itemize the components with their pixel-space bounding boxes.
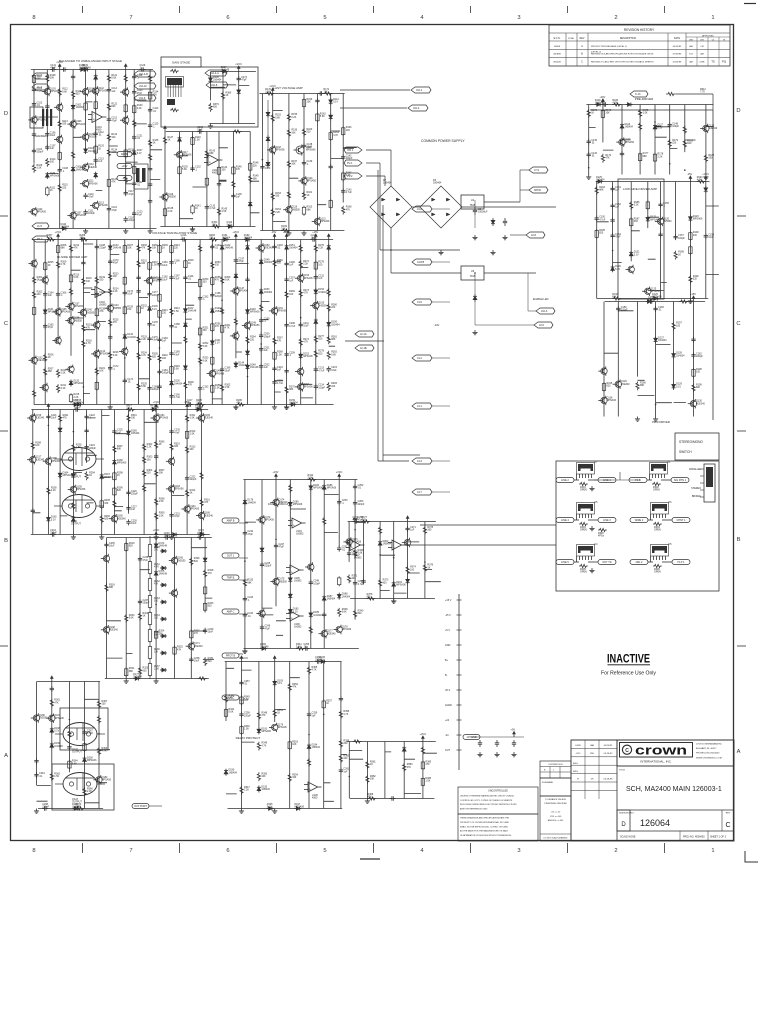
resistor R166 bbox=[342, 126, 344, 128]
diode D123 bbox=[689, 215, 691, 217]
svg-text:SCH, MA2400 MAIN 126003-1: SCH, MA2400 MAIN 126003-1 bbox=[626, 786, 722, 793]
svg-text:DO NOT SCALE DRAWING: DO NOT SCALE DRAWING bbox=[544, 837, 568, 840]
svg-text:7: 7 bbox=[129, 848, 132, 854]
capacitor C174 bbox=[124, 378, 126, 380]
resistor R186 bbox=[630, 201, 633, 210]
capacitor C198 bbox=[247, 277, 249, 279]
wires: pre-driver bus bbox=[586, 105, 713, 175]
transistor Q178 bbox=[336, 626, 342, 632]
svg-text:C11647pF: C11647pF bbox=[111, 206, 117, 212]
arrow J7-9 bbox=[529, 167, 548, 173]
transistor Q166 bbox=[198, 512, 204, 518]
resistor R383 bbox=[403, 763, 406, 772]
diode D161 bbox=[222, 239, 224, 241]
diode D112 bbox=[249, 201, 251, 203]
capacitor C147 bbox=[621, 151, 623, 153]
transistor Q110 bbox=[82, 164, 88, 170]
resistor R262 bbox=[221, 383, 224, 392]
net ovals input stage bbox=[117, 152, 132, 157]
svg-text:STEREO/MONO: STEREO/MONO bbox=[679, 440, 703, 444]
diode D180 bbox=[289, 501, 291, 503]
resistor R130 bbox=[133, 104, 135, 106]
resistor R354 bbox=[288, 773, 291, 782]
resistor R258 bbox=[211, 384, 213, 386]
svg-text:BRIDGE: BRIDGE bbox=[692, 495, 702, 498]
junction bbox=[244, 560, 246, 562]
diode D145 bbox=[247, 244, 249, 246]
svg-text:FILENAME: FILENAME bbox=[542, 781, 553, 784]
wires: hi-side output stage bus bbox=[31, 410, 210, 535]
svg-text:OUT TD: OUT TD bbox=[602, 561, 611, 564]
svg-text:HI-P 1: HI-P 1 bbox=[677, 561, 685, 564]
capacitor C181 bbox=[159, 261, 161, 263]
svg-text:REV: REV bbox=[726, 813, 731, 815]
transistor Q154 bbox=[298, 384, 304, 390]
transistor Q137 bbox=[68, 303, 74, 309]
svg-text:C1904.7uF: C1904.7uF bbox=[174, 393, 181, 399]
junction bbox=[85, 166, 87, 168]
resistor R276 bbox=[315, 261, 317, 263]
resistor R285 bbox=[196, 403, 205, 406]
ground bbox=[210, 124, 212, 126]
svg-text:TLR: TLR bbox=[689, 54, 693, 56]
resistor R384 bbox=[421, 746, 424, 755]
svg-text:PRODUCTION RELEASE (LEVEL 1): PRODUCTION RELEASE (LEVEL 1) bbox=[591, 45, 627, 48]
resistor R115 bbox=[58, 184, 61, 193]
svg-text:+VCC: +VCC bbox=[702, 173, 709, 176]
resistor R127 bbox=[125, 103, 127, 105]
zone ticks top bbox=[82, 6, 84, 13]
capacitor C243 bbox=[244, 596, 246, 598]
resistor R279 bbox=[327, 288, 330, 297]
capacitor C103 bbox=[33, 132, 35, 134]
transistor Q160 bbox=[111, 516, 117, 522]
transistor enclosure box upper bbox=[60, 708, 108, 750]
arrow J2-6 bbox=[534, 322, 553, 328]
resistor R378 bbox=[367, 597, 376, 600]
resistor R265 bbox=[260, 304, 263, 313]
resistor R345 bbox=[241, 695, 243, 697]
arrow J10-1 bbox=[411, 87, 431, 93]
capacitor C233 bbox=[74, 409, 76, 411]
resistor R103 bbox=[579, 522, 588, 525]
diode D127 bbox=[655, 336, 657, 338]
resistor R310 bbox=[170, 442, 173, 451]
capacitor C191 bbox=[184, 275, 186, 277]
capacitor C263 bbox=[36, 758, 38, 760]
resistor R126 bbox=[124, 74, 127, 83]
ground bbox=[235, 405, 237, 407]
supply arrow bbox=[155, 407, 157, 410]
diode D198 bbox=[51, 727, 53, 729]
capacitor C214 bbox=[315, 384, 317, 386]
ground bbox=[235, 405, 237, 407]
resistor R180 bbox=[683, 125, 686, 134]
capacitor C206 bbox=[286, 261, 288, 263]
resistor R307 bbox=[155, 469, 158, 478]
resistor R268 bbox=[274, 351, 276, 353]
resistor R132 bbox=[133, 165, 135, 167]
junction bbox=[138, 358, 140, 360]
arrow SPKR GND bbox=[529, 187, 548, 193]
resistor R182 bbox=[704, 154, 707, 163]
resistor R288 bbox=[80, 238, 89, 241]
resistor R148 bbox=[249, 162, 251, 164]
capacitor C157 bbox=[675, 234, 677, 236]
resistor R138 bbox=[164, 207, 166, 209]
resistor R185 bbox=[596, 229, 598, 231]
svg-text:+: + bbox=[291, 570, 293, 574]
resistor R351 bbox=[273, 709, 276, 718]
resistor R250 bbox=[199, 278, 201, 280]
capacitor C267 bbox=[84, 730, 86, 732]
capacitor C177 bbox=[149, 291, 151, 293]
svg-text:C27247pF: C27247pF bbox=[353, 516, 359, 522]
transistor Q172 bbox=[259, 517, 265, 523]
capacitor C158 bbox=[705, 233, 707, 235]
svg-text:SIG RTN 1: SIG RTN 1 bbox=[674, 479, 687, 482]
resistor R251 bbox=[199, 327, 201, 329]
wires: voltage translator stage bus bbox=[32, 240, 335, 405]
svg-text:B: B bbox=[4, 538, 8, 544]
svg-text:REVISION HISTORY: REVISION HISTORY bbox=[624, 28, 655, 32]
resistor R326 bbox=[190, 557, 193, 566]
capacitor C217 bbox=[187, 404, 189, 406]
resistor R123 bbox=[107, 133, 110, 142]
resistor R377 bbox=[361, 520, 370, 523]
diode D174 bbox=[155, 542, 157, 544]
diode D150 bbox=[260, 288, 262, 290]
diode D104 bbox=[85, 147, 87, 149]
resistor R311 bbox=[186, 414, 189, 423]
svg-text:+15V: +15V bbox=[273, 471, 279, 474]
wires: low-side driver amp bus bbox=[596, 182, 719, 299]
resistor R151 bbox=[170, 108, 179, 111]
transistor Q181 bbox=[49, 715, 55, 721]
svg-text:C2084.7uF: C2084.7uF bbox=[289, 322, 296, 328]
capacitor C164 bbox=[44, 291, 46, 293]
capacitor C138 bbox=[303, 143, 305, 145]
svg-text:C23810uF: C23810uF bbox=[194, 657, 200, 663]
svg-text:LINE 4: LINE 4 bbox=[561, 519, 569, 522]
capacitor C184 bbox=[159, 369, 161, 371]
supply arrow bbox=[602, 102, 604, 105]
resistor R375 bbox=[423, 526, 426, 535]
diode D134 bbox=[124, 333, 126, 335]
transistor Q139 bbox=[68, 366, 74, 372]
svg-text:AMP C: AMP C bbox=[227, 611, 235, 614]
capacitor C264 bbox=[36, 772, 38, 774]
svg-text:C16547pF: C16547pF bbox=[48, 323, 54, 329]
transistor Q163 bbox=[168, 486, 174, 492]
capacitor C265 bbox=[51, 686, 53, 688]
resistor R212 bbox=[69, 244, 72, 253]
svg-text:REV: REV bbox=[580, 38, 585, 40]
resistor R271 bbox=[299, 244, 302, 253]
supply arrow bbox=[47, 407, 49, 410]
resistor R257 bbox=[211, 356, 213, 358]
junction bbox=[159, 347, 161, 349]
resistor R226 bbox=[109, 351, 112, 360]
resistor R373 bbox=[379, 579, 382, 588]
transistor Q153 bbox=[298, 368, 304, 374]
resistor R168 bbox=[342, 206, 345, 215]
resistor R144 bbox=[218, 166, 220, 168]
transistor Q142 bbox=[94, 351, 100, 357]
transistor Q165 bbox=[198, 415, 204, 421]
svg-text:OTHERWISE SPECIFIED: OTHERWISE SPECIFIED bbox=[544, 803, 568, 805]
resistor R362 bbox=[50, 772, 53, 781]
svg-text:AGND: AGND bbox=[445, 704, 452, 707]
arrows J10 pills right bbox=[205, 70, 227, 76]
svg-text:6: 6 bbox=[226, 15, 229, 21]
svg-text:C15447pF: C15447pF bbox=[615, 233, 621, 239]
transistor Q162 bbox=[168, 458, 174, 464]
diode D202 bbox=[379, 540, 381, 542]
resistor R238 bbox=[148, 353, 151, 362]
resistor R299 bbox=[113, 487, 115, 489]
svg-text:LAR: LAR bbox=[689, 45, 693, 48]
diode D207 bbox=[221, 71, 223, 73]
net label oval bbox=[598, 478, 616, 483]
svg-text:+15V: +15V bbox=[690, 293, 696, 296]
junction bbox=[323, 714, 325, 716]
capacitor C270 bbox=[363, 579, 365, 581]
transistor Q164 bbox=[184, 506, 190, 512]
capacitor C239 bbox=[204, 628, 206, 630]
resistor R360 bbox=[339, 754, 342, 763]
diode D159 bbox=[289, 404, 291, 406]
svg-text:05-28-98: 05-28-98 bbox=[604, 778, 614, 780]
ground bbox=[192, 227, 194, 229]
capacitor C231 bbox=[171, 512, 173, 514]
diode D168 bbox=[113, 459, 115, 461]
resistor R193 bbox=[612, 297, 621, 300]
transistor Q170 bbox=[171, 590, 177, 596]
resistor R296 bbox=[100, 515, 103, 524]
resistor R371 bbox=[348, 575, 351, 584]
resistor R187 bbox=[630, 217, 632, 219]
diode D126 bbox=[652, 298, 654, 300]
resistor R179 bbox=[668, 139, 671, 148]
supply arrow +5V bbox=[513, 734, 515, 737]
resistor R369 bbox=[97, 747, 100, 756]
ground bbox=[393, 599, 395, 601]
resistor R269 bbox=[285, 290, 288, 299]
capacitor C112 bbox=[95, 131, 97, 133]
diode D204 bbox=[407, 578, 409, 580]
capacitor C172 bbox=[109, 365, 111, 367]
ground bbox=[85, 229, 87, 231]
ground bbox=[591, 568, 593, 570]
resistor R363 bbox=[68, 730, 71, 739]
svg-text:LOW-SIDE DRIVER AMP: LOW-SIDE DRIVER AMP bbox=[623, 187, 657, 191]
transistor Q114 bbox=[123, 89, 129, 95]
resistor R352 bbox=[288, 683, 291, 692]
relay K606 bbox=[652, 546, 667, 553]
resistor R315 bbox=[200, 471, 203, 480]
resistor R321 bbox=[125, 667, 127, 669]
net label oval bbox=[672, 560, 690, 565]
svg-text:WWW.CROWNINTL.COM: WWW.CROWNINTL.COM bbox=[696, 757, 722, 759]
capacitor C178 bbox=[149, 321, 151, 323]
transistor Q159 bbox=[70, 486, 76, 492]
svg-text:CONTROLLED COPY, COPIES OF THE: CONTROLLED COPY, COPIES OF THESE DOCUMEN… bbox=[460, 800, 513, 802]
resistor R366 bbox=[83, 787, 86, 796]
capacitor C171 bbox=[109, 334, 111, 336]
resistor R281 bbox=[327, 336, 330, 345]
resistor R161 bbox=[302, 191, 305, 200]
diode D128 bbox=[673, 352, 675, 354]
svg-text:07/30/93: 07/30/93 bbox=[673, 54, 682, 56]
capacitor C240 bbox=[164, 537, 166, 539]
resistor R112 bbox=[58, 88, 61, 97]
resistor R209 bbox=[57, 260, 60, 269]
jack symbol channel 1 bbox=[30, 107, 43, 128]
relay K604 bbox=[652, 504, 667, 511]
svg-text:AMP B: AMP B bbox=[227, 520, 235, 523]
diode D164 bbox=[59, 471, 61, 473]
diode D208 bbox=[403, 746, 405, 748]
resistor R247 bbox=[184, 335, 187, 344]
resistor R140 bbox=[192, 136, 194, 138]
resistor R292 bbox=[72, 443, 75, 452]
svg-text:C23510uF: C23510uF bbox=[109, 542, 115, 548]
svg-text:C24647pF: C24647pF bbox=[265, 625, 271, 631]
resistor R291 bbox=[59, 414, 62, 423]
resistor R208 bbox=[57, 244, 59, 246]
capacitor C226 bbox=[128, 490, 130, 492]
resistor R290 bbox=[47, 487, 50, 496]
junction bbox=[654, 121, 656, 123]
uncontrolled notice box bbox=[458, 787, 538, 814]
power transistor Q121 bbox=[62, 495, 96, 518]
resistor R184 bbox=[595, 186, 598, 195]
capacitor C131 bbox=[50, 69, 52, 71]
regulator U1 bbox=[461, 195, 484, 209]
diode D102 bbox=[72, 104, 74, 106]
capacitor C2 filter bbox=[474, 207, 476, 210]
svg-text:.XX = ±.02: .XX = ±.02 bbox=[551, 812, 561, 814]
diode D129 bbox=[673, 383, 675, 385]
net label oval bbox=[222, 653, 239, 658]
gain stage relay bbox=[167, 78, 182, 85]
capacitor C170 bbox=[109, 259, 111, 261]
capacitor C151 bbox=[612, 186, 614, 188]
transistor Q116 bbox=[162, 194, 168, 200]
diode D139 bbox=[184, 364, 186, 366]
svg-text:ELKHART, IN. 46517: ELKHART, IN. 46517 bbox=[696, 747, 717, 750]
resistor R141 bbox=[192, 204, 194, 206]
capacitor C175 bbox=[138, 275, 140, 277]
diode D149 bbox=[260, 258, 262, 260]
diode D190 bbox=[225, 769, 227, 771]
junction bbox=[69, 719, 71, 721]
capacitor C189 bbox=[171, 351, 173, 353]
svg-text:+: + bbox=[93, 118, 95, 122]
supply arrow bbox=[274, 659, 276, 662]
supply arrow bbox=[422, 739, 424, 742]
capacitor C211 bbox=[300, 322, 302, 324]
size and dwg number row bbox=[617, 809, 734, 811]
bridge rectifier bbox=[420, 186, 462, 228]
wire bbox=[239, 557, 248, 559]
op-amp center bbox=[350, 540, 360, 551]
wire bbox=[474, 273, 476, 294]
net label oval bbox=[630, 560, 648, 565]
ground bbox=[637, 417, 639, 419]
diode D160 bbox=[244, 239, 246, 241]
capacitor C167 bbox=[82, 260, 84, 262]
resistor R388 bbox=[368, 797, 377, 800]
resistor R343 bbox=[224, 694, 227, 703]
bridge rectifier bbox=[370, 186, 412, 228]
diode D110 bbox=[61, 228, 63, 230]
svg-text:04869: 04869 bbox=[554, 46, 561, 48]
resistor R225 bbox=[109, 318, 112, 327]
ground bbox=[286, 405, 288, 407]
capacitor C249 bbox=[323, 612, 325, 614]
resistor R264 bbox=[246, 336, 249, 345]
capacitor C123 bbox=[133, 211, 135, 213]
pill J17 bbox=[463, 735, 480, 740]
resistor R261 bbox=[221, 324, 223, 326]
resistor R260 bbox=[221, 306, 224, 315]
resistor R107 bbox=[33, 74, 35, 76]
resistor R192 bbox=[689, 275, 692, 284]
resistor R155 bbox=[287, 113, 290, 122]
svg-text:-: - bbox=[291, 566, 292, 570]
svg-text:+: + bbox=[293, 523, 295, 527]
svg-text:SWITCH: SWITCH bbox=[679, 450, 692, 454]
resistor R359 bbox=[339, 739, 342, 748]
resistor R342 bbox=[308, 478, 317, 481]
diode D199 bbox=[51, 742, 53, 744]
svg-text:LINE 1: LINE 1 bbox=[603, 479, 611, 482]
svg-text:J2-8: J2-8 bbox=[531, 234, 536, 237]
resistor R135 bbox=[149, 139, 152, 148]
svg-text:SPKR: SPKR bbox=[534, 189, 541, 192]
resistor R280 bbox=[327, 303, 330, 312]
capacitor C194 bbox=[211, 244, 213, 246]
capacitor C144 bbox=[318, 93, 320, 95]
junction bbox=[72, 97, 74, 99]
junction bbox=[155, 604, 157, 606]
op-amp U101 bbox=[92, 112, 102, 123]
svg-text:C2054.7uF: C2054.7uF bbox=[277, 379, 284, 385]
crown logo box bbox=[617, 740, 734, 766]
svg-text:J10-4-A: J10-4-A bbox=[210, 72, 219, 75]
svg-text:VD 1: VD 1 bbox=[445, 689, 451, 692]
resistor R317 bbox=[126, 408, 135, 411]
supply arrow bbox=[57, 237, 59, 240]
resistor R194 bbox=[697, 180, 706, 183]
wire bbox=[432, 261, 450, 263]
diode D105 bbox=[95, 74, 97, 76]
resistor R293 bbox=[72, 501, 75, 510]
resistor R224 bbox=[109, 287, 112, 296]
svg-text:LINE 5: LINE 5 bbox=[561, 561, 569, 564]
capacitor C107 bbox=[46, 145, 48, 147]
diode D113 bbox=[227, 226, 229, 228]
diode D157 bbox=[72, 404, 74, 406]
diode D154 bbox=[315, 318, 317, 320]
net label oval bbox=[598, 518, 616, 523]
svg-text:TMP B: TMP B bbox=[227, 577, 235, 580]
transistor Q156 bbox=[30, 415, 36, 421]
svg-text:PARALLEL: PARALLEL bbox=[689, 468, 702, 471]
resistor R297 bbox=[113, 445, 116, 454]
